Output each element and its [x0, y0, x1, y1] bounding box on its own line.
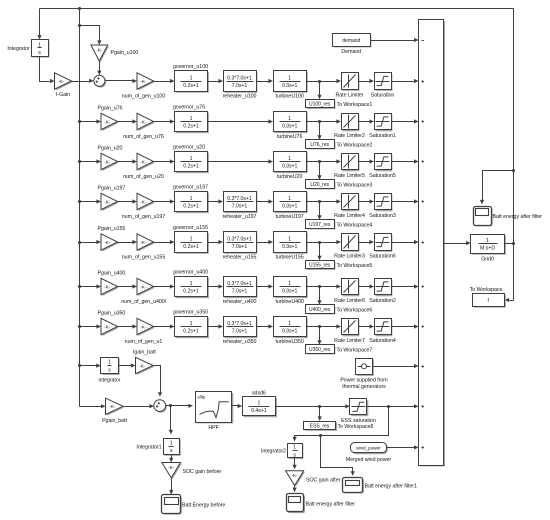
gain Pgain_u350	[101, 318, 119, 336]
svg-text:-K-: -K-	[58, 79, 65, 84]
wire Pgain_u76 to num_of_gen_u76	[118, 119, 138, 123]
wire sum to Grid0	[444, 241, 471, 245]
block Saturation2	[375, 279, 393, 297]
block reheater_u350	[224, 317, 258, 339]
svg-text:7.0s+1: 7.0s+1	[232, 204, 248, 210]
wire Pgain_batt to sum batt	[124, 404, 155, 408]
block To Workspace U197_res	[306, 220, 336, 230]
svg-text:To Workspace3: To Workspace3	[337, 182, 373, 188]
svg-text:-K-: -K-	[139, 363, 146, 368]
wire reheater to turbine_u100	[257, 79, 274, 83]
label turbineU100	[275, 94, 303, 100]
block Saturation3	[375, 194, 393, 212]
svg-text:Rate Limiter3: Rate Limiter3	[334, 253, 365, 259]
svg-text:1: 1	[257, 401, 260, 407]
wire saturation to sum u76	[392, 119, 419, 123]
wire num_of_gen to governor_u400	[154, 284, 175, 288]
wire reheater to turbine_u155	[257, 240, 274, 244]
svg-text:Saturation1: Saturation1	[369, 133, 396, 139]
svg-text:0.3s+1: 0.3s+1	[282, 204, 298, 210]
svg-text:Rate Limiter4: Rate Limiter4	[334, 213, 365, 219]
svg-text:-K-: -K-	[140, 119, 147, 124]
svg-text:turbineU100: turbineU100	[275, 94, 303, 100]
wire Grid0 output to feedback	[505, 243, 514, 245]
svg-text:s: s	[170, 448, 173, 454]
svg-text:turbineU400: turbineU400	[275, 299, 303, 305]
svg-text:I-Gain: I-Gain	[56, 92, 70, 98]
wire saturation to sum u20	[392, 159, 419, 163]
junction Grid0 output	[512, 242, 515, 245]
svg-text:1: 1	[190, 116, 193, 122]
svg-text:num_of_gen_u1: num_of_gen_u1	[125, 339, 163, 345]
svg-text:Saturation2: Saturation2	[369, 298, 396, 304]
svg-text:1: 1	[190, 236, 193, 242]
label num_of_gen_u76	[123, 134, 164, 140]
wire I-Gain to sum	[72, 79, 94, 83]
block governor_u400	[175, 277, 209, 299]
label To Workspace	[470, 287, 503, 293]
svg-text:governor_u20: governor_u20	[173, 145, 205, 151]
svg-text:U400_res: U400_res	[309, 307, 331, 313]
wire Pgain_u155 to num_of_gen_u155	[118, 240, 138, 244]
svg-text:reheater_u155: reheater_u155	[223, 255, 257, 261]
wire governor to reheater_u197	[208, 199, 224, 203]
gain num_of_gen_u350	[137, 318, 155, 336]
svg-text:Rate Limiter2: Rate Limiter2	[334, 133, 365, 139]
svg-text:turbineU155: turbineU155	[275, 255, 303, 261]
label Integrator1	[136, 445, 161, 451]
wire governor to reheater_u350	[208, 324, 224, 328]
block To Workspace f	[473, 294, 506, 308]
gain num_of_gen_u20	[137, 153, 155, 171]
label Saturation4	[369, 338, 396, 344]
svg-text:To Workspace5: To Workspace5	[337, 263, 373, 269]
gain Pgain_u197	[101, 193, 119, 211]
label To Workspace7	[337, 347, 373, 353]
gain Pgain_u100	[91, 45, 109, 62]
wire frequency feedback top	[40, 8, 514, 10]
gain Pgain_u155	[101, 234, 119, 252]
gain num_of_gen_u400	[137, 278, 155, 296]
label Pgain_u400	[98, 271, 126, 277]
svg-text:0.2s+1: 0.2s+1	[183, 329, 199, 335]
block Rate Limiter3	[342, 234, 360, 252]
svg-text:7.0s+1: 7.0s+1	[232, 83, 248, 89]
svg-text:1: 1	[190, 321, 193, 327]
svg-text:reheater_u400: reheater_u400	[223, 299, 257, 305]
wire branch to Pgain_u100	[80, 26, 102, 46]
label Rate Limiter6	[334, 298, 365, 304]
gain Pgain_u20	[101, 153, 119, 171]
label governor_u20	[173, 145, 205, 151]
junction scope tap	[512, 169, 515, 172]
block reheater_u155	[224, 232, 258, 254]
label Pgain_u76	[98, 106, 123, 112]
svg-text:7.0s+1: 7.0s+1	[232, 289, 248, 295]
label reheater_u350	[223, 339, 257, 345]
svg-text:0.4s+1: 0.4s+1	[251, 408, 267, 414]
junction bus row u350	[78, 325, 81, 328]
label Rate Limiter5	[334, 173, 365, 179]
svg-text:Integrator2: Integrator2	[261, 449, 286, 455]
junction bus row u155	[78, 241, 81, 244]
junction bus row u20	[78, 160, 81, 163]
scope Batt energy after filter	[474, 207, 493, 227]
wire governor to reheater_u400	[208, 284, 224, 288]
gain Pgain_u76	[101, 113, 119, 131]
wire bus to Pgain_u20	[80, 159, 102, 163]
wire down to workspace tag u197	[317, 202, 321, 220]
junction bus top	[78, 7, 81, 10]
svg-text:1: 1	[288, 156, 291, 162]
wire tap to scope batt1	[321, 436, 355, 476]
svg-text:0.3s+1: 0.3s+1	[282, 289, 298, 295]
label turbineU350	[275, 339, 303, 345]
wire ESS feedback down	[293, 407, 389, 442]
wire bus to Pgain_batt	[80, 404, 106, 408]
svg-text:0.2s+1: 0.2s+1	[183, 289, 199, 295]
wire saturation to sum u100	[392, 79, 419, 83]
svg-text:7.0s+1: 7.0s+1	[232, 329, 248, 335]
junction row u20 tap	[318, 160, 321, 163]
wire bus to Pgain_u350	[80, 324, 102, 328]
label To Workspace8	[338, 424, 374, 430]
svg-text:turbineU76: turbineU76	[277, 134, 303, 140]
wire tap to scope	[480, 171, 514, 205]
wire num_of_gen to governor_u20	[154, 159, 175, 163]
svg-text:-K-: -K-	[140, 240, 147, 245]
block turbine turbineU197	[274, 192, 308, 214]
scope Batt Energy before	[162, 495, 182, 515]
svg-text:-K-: -K-	[104, 284, 111, 289]
block turbine turbineU76	[274, 112, 308, 134]
label governor_u400	[173, 270, 208, 276]
block ESS saturation	[350, 399, 369, 417]
wire thermal to sum	[373, 364, 419, 368]
wire integrator to Igain_batt	[119, 363, 136, 367]
svg-text:1: 1	[288, 75, 291, 81]
junction bus battery integrator	[78, 364, 81, 367]
wire sum batt to HPF	[166, 404, 194, 408]
label Pgain_batt	[102, 418, 127, 424]
svg-text:7.0s+1: 7.0s+1	[232, 244, 248, 250]
block To Workspace ESS_res	[304, 422, 338, 431]
label num_of_gen_u100	[122, 94, 166, 100]
wire HPF to sdsd6	[232, 404, 243, 408]
svg-text:wind_power: wind_power	[356, 446, 381, 451]
label Grid0	[481, 257, 494, 263]
wire rate limiter to saturation u76	[359, 119, 375, 123]
svg-text:Batt energy after filter: Batt energy after filter	[306, 502, 356, 508]
wire rate limiter to saturation u155	[359, 240, 375, 244]
block reheater_u100	[224, 71, 258, 93]
label Batt energy after filter1	[365, 484, 417, 490]
svg-text:Integrator: Integrator	[7, 46, 29, 52]
svg-text:M.s+D: M.s+D	[480, 245, 495, 251]
wire Pgain_u197 to num_of_gen_u197	[118, 199, 138, 203]
wire num_of_gen to governor_u100	[154, 79, 175, 83]
junction row u350 tap	[318, 325, 321, 328]
label turbineU197	[275, 214, 303, 220]
label Rate Limiter3	[334, 253, 365, 259]
svg-text:0.3*7.0s+1: 0.3*7.0s+1	[227, 196, 252, 202]
block Saturation5	[375, 154, 393, 172]
svg-text:turbineU20: turbineU20	[277, 174, 303, 180]
label Power supplied from thermal generators	[340, 378, 388, 390]
svg-text:Rate Limiter5: Rate Limiter5	[334, 173, 365, 179]
label turbineU20	[277, 174, 303, 180]
svg-text:s: s	[108, 367, 111, 373]
svg-text:-K-: -K-	[292, 473, 299, 478]
label Pgain_u155	[98, 226, 126, 232]
wire rate limiter to saturation u100	[359, 79, 375, 83]
wire bus to integrator	[80, 364, 101, 368]
svg-text:-K-: -K-	[140, 199, 147, 204]
label Integrator	[7, 46, 29, 52]
wire Integrator to I-Gain	[40, 57, 55, 84]
svg-text:Batt energy after filter1: Batt energy after filter1	[365, 484, 417, 490]
gain Pgain_u400	[101, 278, 119, 296]
wire turbine to rate limiter u197	[307, 199, 342, 203]
block Rate Limiter7	[342, 319, 360, 337]
wire Integrator2 to SOC gain after	[293, 458, 297, 470]
wire rate limiter to saturation u400	[359, 284, 375, 288]
block turbine turbineU350	[274, 317, 308, 339]
svg-text:1: 1	[288, 281, 291, 287]
wire rate limiter to saturation u350	[359, 324, 375, 328]
wire rate limiter to saturation u197	[359, 199, 375, 203]
block Saturation6	[375, 234, 393, 252]
label Rate Limiter4	[334, 213, 365, 219]
wire saturation to sum u197	[392, 199, 419, 203]
wire into Integrator	[37, 9, 41, 40]
svg-text:Saturation: Saturation	[371, 92, 395, 98]
wire down to workspace tag u350	[317, 327, 321, 345]
svg-text:Saturation6: Saturation6	[369, 253, 396, 259]
svg-text:Batt energy after filter: Batt energy after filter	[493, 214, 543, 220]
block HPF (ellip)	[196, 392, 234, 424]
svg-text:Power supplied from: Power supplied from	[340, 378, 388, 384]
svg-text:s: s	[38, 50, 41, 56]
svg-text:-K-: -K-	[96, 47, 103, 52]
label Saturation2	[369, 298, 396, 304]
wire governor to reheater_u155	[208, 240, 224, 244]
wire rate limiter to saturation u20	[359, 159, 375, 163]
svg-text:U76_res: U76_res	[310, 142, 329, 148]
block Integrator1 (1/s)	[164, 439, 181, 456]
label governor_u155	[173, 225, 208, 231]
label sdsd6	[252, 390, 266, 396]
label turbineU155	[275, 255, 303, 261]
svg-text:Saturation3: Saturation3	[369, 213, 396, 219]
wire down to workspace tag u400	[317, 287, 321, 305]
wire bus to Pgain_u76	[80, 119, 102, 123]
junction bus row u197	[78, 200, 81, 203]
block integrator (1/s) battery	[101, 358, 120, 376]
block governor_u76	[175, 112, 209, 134]
label To Workspace2	[337, 142, 373, 148]
wire num_of_gen to governor_u76	[154, 119, 175, 123]
junction ESS feedback tap	[319, 434, 322, 437]
svg-text:-K-: -K-	[140, 324, 147, 329]
label Rate Limiter7	[334, 338, 365, 344]
svg-text:-K-: -K-	[109, 404, 116, 409]
svg-text:1: 1	[190, 75, 193, 81]
svg-text:1: 1	[293, 445, 296, 451]
wire num_of_gen to governor_u350	[154, 324, 175, 328]
junction row u76 tap	[318, 120, 321, 123]
wire reheater to turbine_u197	[257, 199, 274, 203]
svg-text:Pgain_u100: Pgain_u100	[111, 50, 139, 56]
gain num_of_gen_u155	[137, 234, 155, 252]
block Rate Limiter2	[342, 114, 360, 132]
block governor_u20	[175, 152, 209, 174]
wire SOC gain after to scope	[293, 486, 297, 493]
svg-text:0.3*7.0s+1: 0.3*7.0s+1	[227, 75, 252, 81]
wire governor to reheater_u100	[208, 79, 224, 83]
svg-text:Integrator1: Integrator1	[136, 445, 161, 451]
block Rate Limiter	[342, 73, 360, 91]
block turbine turbineU400	[274, 277, 308, 299]
label reheater_u197	[223, 214, 257, 220]
label Saturation5	[369, 173, 396, 179]
svg-text:0.2s+1: 0.2s+1	[183, 244, 199, 250]
svg-text:SOC gain after: SOC gain after	[306, 477, 341, 483]
label reheater_u400	[223, 299, 257, 305]
label turbineU400	[275, 299, 303, 305]
svg-text:-K-: -K-	[140, 284, 147, 289]
gain num_of_gen_u197	[137, 193, 155, 211]
wire Igain_batt to sum batt	[154, 366, 163, 397]
junction row u100 tap	[318, 80, 321, 83]
label governor_u197	[173, 185, 208, 191]
svg-text:To Workspace4: To Workspace4	[337, 222, 373, 228]
label I-Gain	[56, 92, 70, 98]
svg-text:U100_res: U100_res	[309, 102, 331, 108]
wire num_of_gen to governor_u197	[154, 199, 175, 203]
label Saturation1	[369, 133, 396, 139]
wire Pgain_u400 to num_of_gen_u400	[118, 284, 138, 288]
svg-text:ESS saturation: ESS saturation	[341, 418, 376, 424]
block turbine turbineU100	[274, 71, 308, 93]
svg-text:Pgain_u76: Pgain_u76	[98, 106, 123, 112]
svg-text:U155_res: U155_res	[309, 263, 331, 269]
svg-text:reheater_u100: reheater_u100	[223, 94, 257, 100]
svg-text:U20_res: U20_res	[310, 182, 329, 188]
svg-text:HPF: HPF	[208, 425, 219, 431]
svg-text:0.3*7.0s+1: 0.3*7.0s+1	[227, 236, 252, 242]
sum row u100	[94, 75, 106, 87]
sum block signs	[421, 41, 424, 449]
junction row u155 tap	[318, 241, 321, 244]
wire turbine to rate limiter u350	[307, 324, 342, 328]
wire reheater to turbine_u400	[257, 284, 274, 288]
wire governor to turbine_u76	[208, 119, 274, 123]
block turbine turbineU20	[274, 152, 308, 174]
wire Pgain_u20 to num_of_gen_u20	[118, 159, 138, 163]
block governor_u197	[175, 192, 209, 214]
label turbineU76	[277, 134, 303, 140]
label governor_u76	[173, 105, 205, 111]
gain Igain_batt	[136, 357, 155, 375]
label Saturation3	[369, 213, 396, 219]
junction bus row1 branch	[78, 24, 81, 27]
svg-text:governor_u100: governor_u100	[173, 64, 208, 70]
svg-text:To Workspace1: To Workspace1	[337, 102, 373, 108]
wire turbine to rate limiter u100	[307, 79, 342, 83]
wire turbine to rate limiter u76	[307, 119, 342, 123]
svg-text:-K-: -K-	[104, 240, 111, 245]
svg-text:-K-: -K-	[104, 199, 111, 204]
label Pgain_u350	[98, 311, 126, 317]
svg-text:1: 1	[288, 236, 291, 242]
block wind_power	[351, 443, 388, 455]
svg-text:Rate Limiter7: Rate Limiter7	[334, 338, 365, 344]
label Batt Energy before	[182, 503, 225, 509]
block Grid0 (1/(M.s+D))	[471, 235, 506, 255]
label Pgain_u20	[98, 146, 123, 152]
svg-text:-K-: -K-	[140, 159, 147, 164]
svg-text:Pgain_batt: Pgain_batt	[102, 418, 127, 424]
block demand constant	[333, 34, 372, 48]
wire Integrator1 to SOC gain before	[169, 455, 173, 463]
wire sdsd6 to ESS saturation	[276, 404, 350, 408]
svg-text:Igain_batt: Igain_batt	[133, 350, 156, 356]
block Power supplied from thermal generators	[356, 359, 374, 376]
label Batt energy after filter	[493, 214, 543, 220]
label ESS saturation	[341, 418, 376, 424]
label To Workspace3	[337, 182, 373, 188]
wire turbine to rate limiter u155	[307, 240, 342, 244]
wire turbine to rate limiter u400	[307, 284, 342, 288]
svg-text:Grid0: Grid0	[481, 257, 494, 263]
wire turbine to rate limiter u20	[307, 159, 342, 163]
svg-text:1: 1	[486, 238, 489, 244]
label governor_u100	[173, 64, 208, 70]
svg-text:governor_u76: governor_u76	[173, 105, 205, 111]
wire down to Integrator1	[169, 406, 173, 435]
gain I-Gain	[55, 73, 73, 91]
svg-text:1: 1	[288, 116, 291, 122]
svg-text:0.2s+1: 0.2s+1	[183, 204, 199, 210]
svg-text:num_of_gen_u197: num_of_gen_u197	[122, 214, 166, 220]
svg-text:ellip: ellip	[198, 394, 206, 399]
svg-text:0.3s+1: 0.3s+1	[282, 164, 298, 170]
junction row u400 tap	[318, 285, 321, 288]
label Saturation6	[369, 253, 396, 259]
label Merged wind power	[346, 457, 392, 463]
svg-text:1: 1	[288, 196, 291, 202]
sum block Add (grid balance)	[419, 20, 446, 467]
svg-text:num_of_gen_u20: num_of_gen_u20	[123, 174, 164, 180]
block Rate Limiter4	[342, 194, 360, 212]
wire ESS saturation to sum	[367, 404, 419, 408]
block To Workspace U155_res	[306, 261, 336, 270]
label To Workspace6	[337, 307, 373, 313]
label governor_u350	[173, 310, 208, 316]
svg-text:Pgain_u20: Pgain_u20	[98, 146, 123, 152]
scope Batt energy after filter (SOC)	[287, 494, 306, 514]
label Demand	[341, 49, 361, 55]
wire Pgain_u100 to sum	[97, 62, 101, 76]
wire feedback to f workspace	[505, 298, 514, 302]
wire governor to turbine_u20	[208, 159, 274, 163]
block To Workspace U20_res	[306, 180, 336, 190]
svg-text:-K-: -K-	[168, 465, 175, 470]
svg-text:0.2s+1: 0.2s+1	[183, 164, 199, 170]
svg-text:0.3s+1: 0.3s+1	[282, 83, 298, 89]
svg-text:1: 1	[38, 42, 41, 48]
